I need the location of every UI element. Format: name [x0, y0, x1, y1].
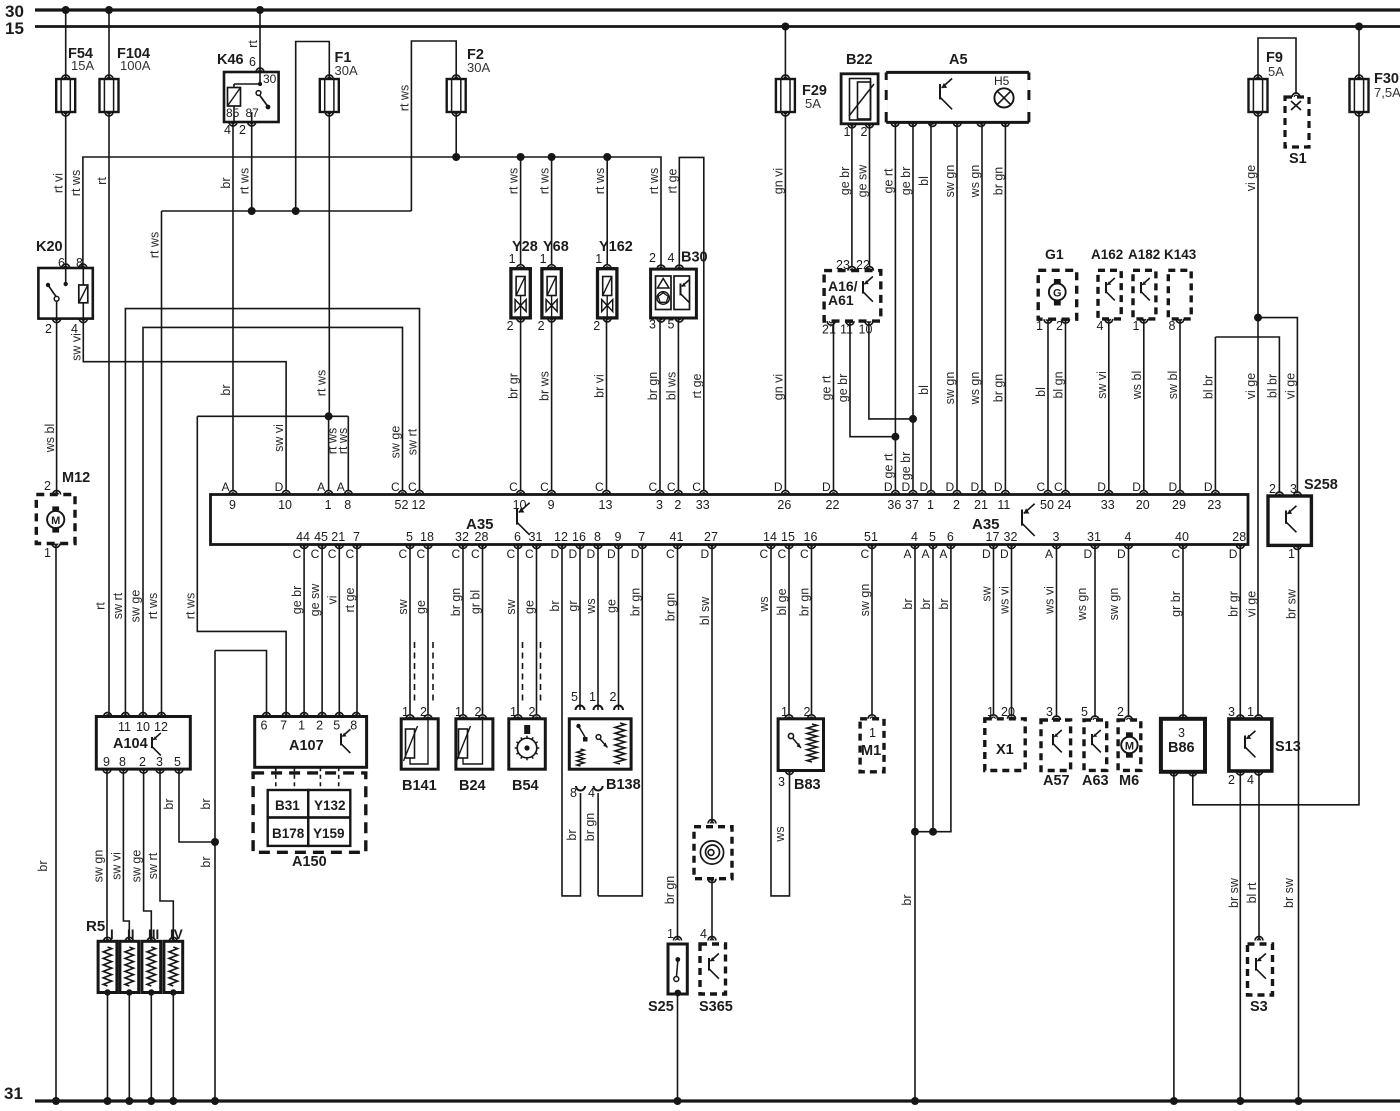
svg-text:S258: S258 — [1304, 477, 1338, 493]
svg-text:M1: M1 — [861, 743, 881, 759]
svg-text:5: 5 — [333, 719, 340, 733]
svg-text:1: 1 — [987, 705, 994, 719]
svg-text:23: 23 — [1207, 498, 1221, 512]
svg-text:D: D — [275, 480, 284, 494]
svg-text:sw gn: sw gn — [1107, 588, 1121, 621]
svg-text:45: 45 — [314, 530, 328, 544]
svg-text:sw vi: sw vi — [110, 852, 124, 880]
svg-text:1: 1 — [509, 252, 516, 266]
svg-text:87: 87 — [246, 106, 260, 120]
svg-text:B54: B54 — [512, 778, 539, 794]
svg-text:2: 2 — [804, 705, 811, 719]
svg-text:rt: rt — [94, 602, 108, 610]
svg-text:K143: K143 — [1164, 247, 1197, 262]
svg-text:bl: bl — [917, 176, 931, 186]
svg-text:B22: B22 — [846, 52, 873, 68]
svg-text:A182: A182 — [1128, 247, 1160, 262]
svg-text:5: 5 — [929, 530, 936, 544]
svg-text:1: 1 — [869, 726, 876, 740]
svg-text:A63: A63 — [1082, 773, 1109, 789]
svg-text:sw bl: sw bl — [1166, 371, 1180, 399]
svg-text:52: 52 — [395, 498, 409, 512]
svg-text:2: 2 — [649, 251, 656, 265]
svg-text:K20: K20 — [36, 239, 63, 255]
svg-text:A107: A107 — [289, 738, 324, 754]
svg-text:br gr: br gr — [1226, 591, 1240, 617]
svg-text:4: 4 — [911, 530, 918, 544]
svg-text:A: A — [317, 480, 325, 494]
svg-text:Y28: Y28 — [512, 239, 538, 255]
svg-text:D: D — [1169, 480, 1178, 494]
svg-text:G1: G1 — [1045, 246, 1064, 262]
svg-text:vi ge: vi ge — [1245, 591, 1259, 617]
svg-text:ws: ws — [773, 826, 787, 842]
svg-text:8: 8 — [76, 256, 83, 270]
svg-text:A: A — [939, 547, 947, 561]
svg-text:3: 3 — [649, 318, 656, 332]
svg-text:bl sw: bl sw — [698, 596, 712, 625]
svg-text:C: C — [595, 480, 604, 494]
svg-text:2: 2 — [529, 705, 536, 719]
svg-text:br gn: br gn — [583, 813, 597, 842]
svg-text:br gn: br gn — [646, 372, 660, 401]
svg-text:1: 1 — [540, 252, 547, 266]
svg-text:B83: B83 — [794, 777, 821, 793]
svg-text:rt vi: rt vi — [52, 173, 66, 193]
svg-text:1: 1 — [589, 690, 596, 704]
svg-text:14: 14 — [763, 530, 777, 544]
svg-text:8: 8 — [570, 786, 577, 800]
svg-text:S1: S1 — [1289, 151, 1307, 167]
svg-text:ge br: ge br — [836, 374, 850, 403]
svg-text:M: M — [1125, 741, 1134, 753]
svg-text:sw vi: sw vi — [1095, 371, 1109, 399]
svg-text:sw ge: sw ge — [389, 426, 403, 459]
svg-text:gr: gr — [566, 600, 580, 611]
svg-text:D: D — [971, 480, 980, 494]
svg-text:2: 2 — [44, 479, 51, 493]
svg-text:1: 1 — [510, 705, 517, 719]
svg-text:ge: ge — [605, 599, 619, 613]
svg-text:1: 1 — [325, 498, 332, 512]
svg-text:B141: B141 — [402, 778, 437, 794]
svg-text:C: C — [391, 480, 400, 494]
svg-text:30A: 30A — [467, 60, 490, 75]
svg-text:2: 2 — [1228, 773, 1235, 787]
svg-text:D: D — [822, 480, 831, 494]
svg-text:4: 4 — [700, 927, 707, 941]
svg-text:6: 6 — [249, 55, 256, 69]
svg-text:br: br — [219, 177, 233, 188]
svg-text:bl: bl — [917, 385, 931, 395]
svg-text:D: D — [1204, 480, 1213, 494]
svg-text:sw: sw — [396, 598, 410, 614]
svg-text:A: A — [922, 547, 930, 561]
svg-text:ge: ge — [523, 600, 537, 614]
svg-text:20: 20 — [1001, 705, 1015, 719]
svg-text:br: br — [162, 798, 176, 809]
svg-text:ws vi: ws vi — [998, 586, 1012, 615]
svg-text:D: D — [569, 547, 578, 561]
svg-text:K46: K46 — [217, 52, 244, 68]
svg-text:A5: A5 — [949, 52, 968, 68]
svg-text:9: 9 — [103, 755, 110, 769]
svg-text:C: C — [328, 547, 337, 561]
svg-text:ws vi: ws vi — [1043, 586, 1057, 615]
svg-text:rt ge: rt ge — [343, 587, 357, 612]
svg-text:sw gn: sw gn — [92, 850, 106, 883]
svg-text:D: D — [587, 547, 596, 561]
svg-text:6: 6 — [514, 530, 521, 544]
svg-text:2: 2 — [139, 755, 146, 769]
svg-text:1: 1 — [595, 252, 602, 266]
svg-text:C: C — [1172, 547, 1181, 561]
svg-text:5: 5 — [571, 690, 578, 704]
svg-text:Y162: Y162 — [599, 239, 633, 255]
svg-text:7,5A: 7,5A — [1374, 85, 1400, 100]
svg-text:ge br: ge br — [290, 586, 304, 615]
svg-text:bl ge: bl ge — [775, 588, 789, 615]
svg-text:3: 3 — [1178, 726, 1185, 740]
svg-text:33: 33 — [1101, 498, 1115, 512]
svg-text:13: 13 — [599, 498, 613, 512]
svg-text:B30: B30 — [681, 250, 708, 266]
svg-text:20: 20 — [1136, 498, 1150, 512]
svg-text:br gn: br gn — [449, 588, 463, 617]
svg-text:gr bl: gr bl — [469, 590, 483, 614]
svg-text:2: 2 — [674, 498, 681, 512]
svg-text:ws: ws — [584, 598, 598, 614]
svg-text:31: 31 — [529, 530, 543, 544]
svg-text:31: 31 — [4, 1084, 23, 1103]
svg-text:br gn: br gn — [663, 876, 677, 905]
svg-text:ws gn: ws gn — [968, 165, 982, 199]
svg-text:br gn: br gn — [798, 588, 812, 617]
svg-text:br sw: br sw — [1227, 877, 1241, 908]
svg-text:2: 2 — [1269, 482, 1276, 496]
svg-text:1: 1 — [1133, 319, 1140, 333]
svg-text:18: 18 — [420, 530, 434, 544]
svg-text:H5: H5 — [994, 74, 1010, 88]
svg-text:A104: A104 — [113, 736, 148, 752]
svg-text:10: 10 — [136, 720, 150, 734]
svg-text:1: 1 — [1288, 547, 1295, 561]
svg-text:sw rt: sw rt — [111, 592, 125, 619]
svg-text:36: 36 — [887, 498, 901, 512]
svg-text:C: C — [760, 547, 769, 561]
svg-text:2: 2 — [239, 123, 246, 137]
svg-text:6: 6 — [58, 256, 65, 270]
svg-text:vi ge: vi ge — [1283, 373, 1297, 399]
svg-text:B178: B178 — [272, 826, 305, 841]
svg-text:8: 8 — [594, 530, 601, 544]
svg-text:2: 2 — [593, 319, 600, 333]
svg-text:A: A — [337, 480, 345, 494]
svg-text:2: 2 — [538, 319, 545, 333]
svg-text:44: 44 — [296, 530, 310, 544]
svg-text:28: 28 — [1232, 530, 1246, 544]
svg-text:sw rt: sw rt — [146, 852, 160, 879]
svg-text:br vi: br vi — [593, 374, 607, 398]
svg-text:7: 7 — [638, 530, 645, 544]
svg-text:D: D — [1097, 480, 1106, 494]
svg-text:85: 85 — [226, 106, 240, 120]
svg-text:2: 2 — [1056, 319, 1063, 333]
svg-text:3: 3 — [778, 775, 785, 789]
svg-text:B24: B24 — [459, 778, 486, 794]
svg-text:3: 3 — [656, 498, 663, 512]
svg-text:15: 15 — [781, 530, 795, 544]
svg-text:1: 1 — [455, 705, 462, 719]
svg-text:9: 9 — [229, 498, 236, 512]
svg-text:rt ws: rt ws — [336, 428, 350, 454]
svg-text:sw rt: sw rt — [406, 428, 420, 455]
svg-text:ge br: ge br — [838, 167, 852, 196]
svg-text:sw vi: sw vi — [272, 424, 286, 452]
svg-text:32: 32 — [455, 530, 469, 544]
svg-text:A57: A57 — [1043, 773, 1070, 789]
svg-text:ws gn: ws gn — [1075, 588, 1089, 622]
svg-text:D: D — [994, 480, 1003, 494]
svg-text:D: D — [701, 547, 710, 561]
svg-text:8: 8 — [1169, 319, 1176, 333]
svg-text:br sw: br sw — [1285, 588, 1299, 619]
svg-text:1: 1 — [781, 705, 788, 719]
svg-text:A162: A162 — [1091, 247, 1123, 262]
svg-text:D: D — [631, 547, 640, 561]
svg-text:rt ws: rt ws — [507, 168, 521, 194]
svg-text:C: C — [1054, 480, 1063, 494]
svg-text:bl ws: bl ws — [664, 372, 678, 400]
svg-text:br: br — [199, 798, 213, 809]
svg-text:4: 4 — [1097, 319, 1104, 333]
svg-text:S365: S365 — [699, 999, 733, 1015]
svg-text:rt ws: rt ws — [148, 232, 162, 258]
svg-text:D: D — [1229, 547, 1238, 561]
svg-text:br: br — [219, 384, 233, 395]
svg-text:15: 15 — [5, 19, 24, 38]
svg-text:ge rt: ge rt — [820, 375, 834, 401]
svg-text:gn vi: gn vi — [771, 168, 785, 194]
svg-text:5: 5 — [1081, 705, 1088, 719]
svg-text:M12: M12 — [62, 470, 90, 486]
svg-text:30: 30 — [263, 72, 277, 86]
svg-text:7: 7 — [353, 530, 360, 544]
svg-text:C: C — [778, 547, 787, 561]
svg-text:br gn: br gn — [628, 588, 642, 617]
svg-text:rt ws: rt ws — [69, 170, 83, 196]
svg-text:9: 9 — [615, 530, 622, 544]
svg-text:2: 2 — [953, 498, 960, 512]
svg-text:rt ws: rt ws — [647, 168, 661, 194]
svg-text:bl br: bl br — [1201, 375, 1215, 399]
svg-text:5: 5 — [668, 318, 675, 332]
svg-text:R5: R5 — [86, 918, 105, 935]
svg-text:37: 37 — [905, 498, 919, 512]
svg-text:1: 1 — [927, 498, 934, 512]
svg-text:C: C — [311, 547, 320, 561]
svg-text:C: C — [509, 480, 518, 494]
svg-text:3: 3 — [1046, 705, 1053, 719]
svg-text:br gn: br gn — [664, 593, 678, 622]
svg-text:rt ws: rt ws — [315, 370, 329, 396]
svg-text:9: 9 — [548, 498, 555, 512]
svg-text:I: I — [110, 927, 114, 942]
svg-text:1: 1 — [844, 125, 851, 139]
svg-text:ge rt: ge rt — [881, 453, 895, 479]
svg-text:Y68: Y68 — [543, 239, 569, 255]
svg-text:1: 1 — [298, 719, 305, 733]
svg-text:D: D — [946, 480, 955, 494]
svg-text:sw: sw — [980, 585, 994, 601]
svg-text:C: C — [471, 547, 480, 561]
svg-text:8: 8 — [350, 719, 357, 733]
svg-text:ge sw: ge sw — [308, 583, 322, 617]
svg-text:3: 3 — [156, 755, 163, 769]
svg-text:vi ge: vi ge — [1244, 165, 1258, 191]
svg-text:vi ge: vi ge — [1244, 373, 1258, 399]
svg-text:C: C — [800, 547, 809, 561]
svg-text:11: 11 — [840, 323, 853, 337]
svg-text:4: 4 — [588, 786, 595, 800]
svg-text:3: 3 — [1228, 705, 1235, 719]
svg-text:2: 2 — [610, 690, 617, 704]
svg-text:bl br: bl br — [1265, 374, 1279, 398]
svg-text:D: D — [1000, 547, 1009, 561]
svg-text:S3: S3 — [1250, 999, 1268, 1015]
svg-text:22: 22 — [856, 258, 870, 272]
svg-text:ge sw: ge sw — [856, 164, 870, 198]
svg-text:17: 17 — [986, 530, 1000, 544]
svg-text:br: br — [199, 856, 213, 867]
svg-text:M: M — [51, 515, 60, 527]
svg-text:D: D — [982, 547, 991, 561]
svg-text:S25: S25 — [648, 999, 674, 1015]
svg-text:1: 1 — [1036, 319, 1043, 333]
svg-text:bl gn: bl gn — [1052, 371, 1066, 398]
svg-text:IV: IV — [170, 927, 183, 942]
svg-text:4: 4 — [1125, 530, 1132, 544]
svg-text:M6: M6 — [1119, 773, 1139, 789]
svg-text:X1: X1 — [996, 742, 1014, 758]
svg-text:1: 1 — [44, 546, 51, 560]
svg-text:15A: 15A — [71, 58, 94, 73]
svg-text:br: br — [36, 860, 50, 871]
svg-text:D: D — [774, 480, 783, 494]
svg-text:C: C — [346, 547, 355, 561]
svg-text:C: C — [452, 547, 461, 561]
svg-text:27: 27 — [704, 530, 718, 544]
svg-text:C: C — [408, 480, 417, 494]
svg-text:III: III — [148, 927, 159, 942]
svg-text:4: 4 — [224, 123, 231, 137]
svg-text:gn vi: gn vi — [771, 374, 785, 400]
svg-text:5A: 5A — [805, 96, 821, 111]
svg-text:rt ge: rt ge — [690, 373, 704, 398]
svg-text:21: 21 — [331, 530, 345, 544]
svg-text:B31: B31 — [275, 798, 300, 813]
svg-text:br: br — [565, 829, 579, 840]
svg-text:32: 32 — [1004, 530, 1018, 544]
svg-text:6: 6 — [261, 719, 268, 733]
svg-text:sw ge: sw ge — [129, 590, 143, 623]
svg-text:sw gn: sw gn — [858, 584, 872, 617]
svg-text:ge br: ge br — [899, 452, 913, 481]
svg-text:2: 2 — [420, 705, 427, 719]
svg-text:C: C — [861, 547, 870, 561]
svg-text:22: 22 — [826, 498, 840, 512]
svg-text:rt ws: rt ws — [397, 85, 411, 111]
svg-text:C: C — [667, 480, 676, 494]
svg-text:C: C — [649, 480, 658, 494]
svg-text:D: D — [551, 547, 560, 561]
svg-text:1: 1 — [402, 705, 409, 719]
svg-text:11: 11 — [118, 720, 131, 734]
svg-text:C: C — [507, 547, 516, 561]
svg-text:rt ws: rt ws — [238, 168, 252, 194]
svg-text:sw gn: sw gn — [943, 165, 957, 198]
svg-text:30A: 30A — [335, 63, 358, 78]
svg-text:A: A — [222, 480, 230, 494]
svg-text:S13: S13 — [1275, 739, 1301, 755]
svg-text:C: C — [1037, 480, 1046, 494]
svg-text:A: A — [904, 547, 912, 561]
svg-text:A150: A150 — [292, 854, 327, 870]
svg-text:51: 51 — [864, 530, 878, 544]
svg-text:23: 23 — [836, 258, 850, 272]
svg-text:gr br: gr br — [1169, 591, 1183, 617]
svg-text:2: 2 — [316, 719, 323, 733]
svg-text:br ws: br ws — [538, 371, 552, 401]
svg-text:rt: rt — [95, 177, 109, 185]
svg-text:6: 6 — [947, 530, 954, 544]
svg-text:16: 16 — [572, 530, 586, 544]
svg-text:C: C — [399, 547, 408, 561]
svg-text:br gr: br gr — [507, 373, 521, 399]
svg-text:B138: B138 — [606, 777, 641, 793]
svg-text:ge br: ge br — [899, 167, 913, 196]
svg-text:ws bl: ws bl — [1130, 371, 1144, 400]
svg-text:2: 2 — [45, 322, 52, 336]
svg-text:10: 10 — [513, 498, 527, 512]
svg-text:50: 50 — [1040, 498, 1054, 512]
svg-text:br sw: br sw — [1282, 877, 1296, 908]
svg-text:40: 40 — [1175, 530, 1189, 544]
svg-text:br: br — [900, 894, 914, 905]
svg-text:26: 26 — [777, 498, 791, 512]
svg-text:1: 1 — [667, 927, 674, 941]
svg-text:5A: 5A — [1268, 64, 1284, 79]
svg-text:rt: rt — [246, 40, 260, 48]
svg-text:10: 10 — [859, 323, 873, 337]
svg-text:5: 5 — [406, 530, 413, 544]
svg-text:5: 5 — [174, 755, 181, 769]
svg-text:ws: ws — [757, 596, 771, 612]
svg-text:7: 7 — [280, 719, 287, 733]
svg-text:2: 2 — [475, 705, 482, 719]
svg-text:C: C — [540, 480, 549, 494]
svg-text:sw vi: sw vi — [69, 333, 83, 361]
svg-text:ge rt: ge rt — [881, 168, 895, 194]
svg-text:8: 8 — [119, 755, 126, 769]
svg-text:rt ge: rt ge — [665, 168, 679, 193]
svg-text:2: 2 — [507, 319, 514, 333]
svg-text:29: 29 — [1172, 498, 1186, 512]
svg-text:D: D — [920, 480, 929, 494]
svg-text:rt ws: rt ws — [538, 168, 552, 194]
svg-text:10: 10 — [278, 498, 292, 512]
svg-text:100A: 100A — [120, 58, 151, 73]
